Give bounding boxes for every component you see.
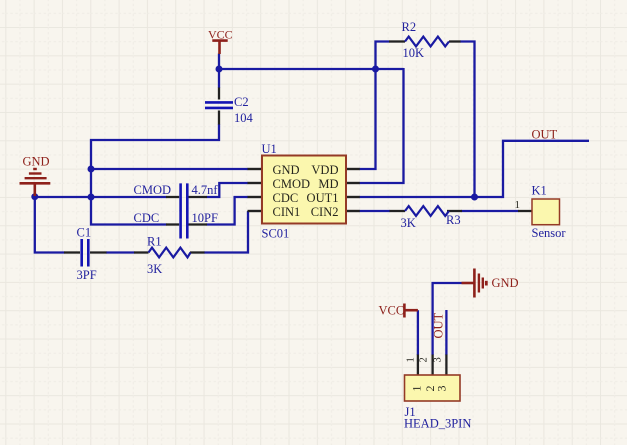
power symbol VCC top <box>212 41 227 54</box>
power symbol VCC bottom <box>404 304 418 318</box>
svg-text:R1: R1 <box>147 234 162 248</box>
pin stub C1 right <box>90 251 107 253</box>
junction node VDD/R2 <box>372 66 379 73</box>
pin stub C2 top <box>218 88 220 100</box>
svg-text:CIN2: CIN2 <box>311 205 339 219</box>
svg-text:4.7nf: 4.7nf <box>192 183 219 197</box>
pin stub CDC cap left <box>166 223 179 225</box>
svg-text:2: 2 <box>418 357 429 362</box>
power symbol GND bottom right <box>462 269 487 298</box>
junction node VCC/C2 <box>216 66 223 73</box>
wire R3 to K1 <box>462 210 519 212</box>
pin stub U1 CIN2 <box>346 210 360 212</box>
capacitor CMOD 4.7nf plates <box>181 183 188 211</box>
pin stub U1 VDD <box>346 168 360 170</box>
svg-text:1: 1 <box>406 357 417 362</box>
svg-text:3PF: 3PF <box>77 268 97 282</box>
svg-text:OUT1: OUT1 <box>307 191 339 205</box>
svg-text:HEAD_3PIN: HEAD_3PIN <box>404 417 471 431</box>
wire MD riser <box>360 68 404 183</box>
svg-text:OUT: OUT <box>532 127 558 141</box>
capacitor C1 plates <box>82 239 89 267</box>
power symbol GND left <box>20 169 51 196</box>
wire CDC cap to U1 CDC pin <box>207 197 249 225</box>
wire CMOD cap to U1 CMOD pin <box>207 183 249 197</box>
resistor R3 zigzag <box>405 206 449 216</box>
wire VCC stem to C2 top <box>218 54 220 89</box>
pin stub U1 OUT1 <box>346 196 360 198</box>
pin stub J1 pin1 <box>417 355 419 376</box>
pin stub U1 GND <box>248 168 262 170</box>
svg-text:C1: C1 <box>77 226 92 240</box>
svg-text:OUT: OUT <box>431 312 445 338</box>
pin stub K1 pin1 <box>518 210 533 212</box>
svg-text:3K: 3K <box>147 262 162 276</box>
svg-text:VCC: VCC <box>208 27 233 41</box>
wire CMOD row left <box>34 196 167 198</box>
pin stub U1 MD <box>346 182 360 184</box>
wire GND row to U1 GND pin <box>91 168 248 170</box>
svg-text:GND: GND <box>492 276 519 290</box>
IC U1 SC01 body <box>262 156 346 224</box>
capacitor CDC 10PF plates <box>181 211 188 239</box>
connector K1 body <box>532 199 560 225</box>
pin stub C2 bottom <box>218 111 220 125</box>
junction node GND row <box>88 166 95 173</box>
svg-text:CDC: CDC <box>134 211 160 225</box>
wire R2 right down to OUT1 node <box>460 42 475 198</box>
pin stub U1 CIN1 <box>248 210 262 212</box>
wire C2 bottom to left vertical and CDC row <box>91 124 219 225</box>
capacitor C2 plates <box>205 102 233 108</box>
svg-text:R3: R3 <box>446 213 461 227</box>
wire J1 pin3 OUT stub <box>445 310 447 355</box>
svg-text:CIN1: CIN1 <box>273 205 301 219</box>
wire J1 pin2 to GND <box>433 283 462 355</box>
svg-text:10PF: 10PF <box>192 211 218 225</box>
pin stub R3 right <box>447 210 462 212</box>
wire R2 left riser <box>376 42 390 70</box>
svg-text:CDC: CDC <box>273 191 299 205</box>
svg-text:10K: 10K <box>403 46 425 60</box>
pin stub J1 pin2 <box>431 355 433 376</box>
svg-text:GND: GND <box>23 155 50 169</box>
svg-text:CMOD: CMOD <box>134 183 172 197</box>
junction node CMOD row <box>88 194 95 201</box>
svg-text:3: 3 <box>432 357 443 362</box>
svg-text:Sensor: Sensor <box>532 226 567 240</box>
svg-text:MD: MD <box>318 177 338 191</box>
pin stub CMOD cap left <box>166 196 179 198</box>
pin stub R2 right <box>449 40 461 42</box>
junction node R2/OUT1 <box>471 194 478 201</box>
svg-text:SC01: SC01 <box>262 227 290 241</box>
svg-text:104: 104 <box>234 111 254 125</box>
pin stub U1 CMOD <box>248 182 262 184</box>
svg-text:VCC: VCC <box>379 304 405 318</box>
svg-text:CMOD: CMOD <box>273 177 311 191</box>
junction node GND stem <box>31 193 38 200</box>
wire VDD to VCC rail <box>360 70 376 169</box>
wire C1 to R1 <box>106 251 135 253</box>
pin stub R1 right <box>190 251 205 253</box>
pin stub J1 pin3 <box>445 355 447 376</box>
wire J1 pin1 to VCC <box>417 310 419 355</box>
wire R1 to CIN1 <box>204 211 248 253</box>
pin stub R2 left <box>389 40 405 42</box>
svg-text:C2: C2 <box>234 95 249 109</box>
svg-text:1: 1 <box>410 386 424 392</box>
svg-text:3: 3 <box>435 386 449 392</box>
wire top horizontal VCC rail <box>219 68 404 70</box>
pin stub C1 left <box>64 251 80 253</box>
resistor R2 zigzag <box>405 37 449 47</box>
svg-text:K1: K1 <box>532 184 547 198</box>
resistor R1 zigzag <box>149 248 191 258</box>
pin stub R1 left <box>134 251 149 253</box>
pin stub CDC cap right <box>189 223 208 225</box>
svg-text:3K: 3K <box>401 216 416 230</box>
svg-text:1: 1 <box>515 199 521 211</box>
svg-text:U1: U1 <box>262 142 277 156</box>
svg-text:R2: R2 <box>402 20 417 34</box>
wire GND node down to C1 <box>35 196 65 253</box>
pin stub U1 CDC <box>248 196 262 198</box>
svg-text:GND: GND <box>273 163 300 177</box>
wire CIN2 to R3 <box>360 210 391 212</box>
wire OUT1 to OUT net <box>360 141 590 197</box>
pin stub R3 left <box>390 210 406 212</box>
svg-text:VDD: VDD <box>311 163 338 177</box>
pin stub CMOD cap right <box>189 196 208 198</box>
connector J1 body <box>405 375 461 401</box>
